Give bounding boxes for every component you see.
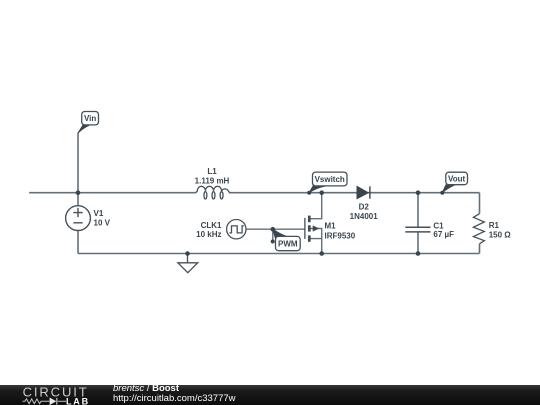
svg-text:R1: R1 <box>489 221 500 230</box>
node dot M1 source/bottom rail <box>319 251 324 256</box>
net flag Vout <box>442 172 467 193</box>
net flag Vin <box>78 112 98 133</box>
svg-text:CLK1: CLK1 <box>201 221 222 230</box>
net flag Vswitch <box>309 172 347 193</box>
inductor L1 <box>196 186 230 199</box>
wire V1 bottom <box>77 231 79 254</box>
capacitor C1 <box>405 227 430 232</box>
node dot PWM stub end <box>271 240 275 244</box>
ground symbol <box>178 254 198 273</box>
svg-text:Vin: Vin <box>84 114 96 123</box>
wire M1 source down <box>310 239 322 254</box>
wire top rail right segment <box>229 192 480 194</box>
node dot ground <box>185 251 190 256</box>
node dot M1 drain/top rail <box>319 190 324 195</box>
footer bar <box>0 385 540 405</box>
node dot junction V1/top rail <box>76 190 81 195</box>
label V1 value <box>94 209 111 228</box>
svg-text:10 V: 10 V <box>94 218 111 227</box>
voltage source V1 <box>66 206 91 231</box>
svg-text:150 Ω: 150 Ω <box>489 231 512 240</box>
svg-text:10 kHz: 10 kHz <box>196 230 221 239</box>
diode D2 <box>357 186 370 198</box>
net flag PWM <box>273 229 300 251</box>
label CLK1 <box>196 221 222 239</box>
footer credit text <box>113 384 236 403</box>
label M1 <box>325 222 356 241</box>
wire Vin vertical <box>77 133 79 206</box>
transistor M1 (P-MOSFET) <box>305 216 318 242</box>
svg-text:1.119 mH: 1.119 mH <box>195 176 230 185</box>
label R1 <box>489 221 512 240</box>
node dot Vswitch <box>307 191 311 195</box>
svg-text:LAB: LAB <box>66 396 90 405</box>
svg-text:1N4001: 1N4001 <box>350 212 379 221</box>
svg-text:M1: M1 <box>325 222 337 231</box>
wire C1 top <box>417 193 419 227</box>
CircuitLab logo <box>0 385 100 405</box>
wire PWM stub <box>272 229 274 241</box>
resistor R1 <box>473 214 484 244</box>
node dot C1 top <box>416 190 421 195</box>
svg-text:Vout: Vout <box>448 174 466 183</box>
node dot PWM junction <box>271 227 276 232</box>
svg-text:V1: V1 <box>94 209 104 218</box>
label D2 <box>350 202 379 221</box>
wire R1 bottom <box>479 244 481 254</box>
clock source CLK1 <box>227 220 246 239</box>
wire top rail left segment <box>29 192 196 194</box>
svg-text:L1: L1 <box>207 167 217 176</box>
svg-text:PWM: PWM <box>278 240 298 249</box>
svg-text:IRF9530: IRF9530 <box>325 231 356 240</box>
wire M1 body <box>310 229 322 239</box>
label C1 <box>433 222 454 240</box>
svg-text:67 µF: 67 µF <box>433 230 454 239</box>
wire M1 drain up <box>310 193 322 219</box>
node dot C1 bottom <box>416 251 421 256</box>
label L1 <box>195 167 230 186</box>
svg-text:Vswitch: Vswitch <box>315 175 345 184</box>
wire CLK1 to gate <box>246 228 305 230</box>
wire bottom rail <box>78 253 480 255</box>
svg-text:D2: D2 <box>359 202 370 211</box>
wire C1 bottom <box>417 232 419 254</box>
wire R1 top <box>479 193 481 214</box>
node dot Vout <box>440 191 444 195</box>
